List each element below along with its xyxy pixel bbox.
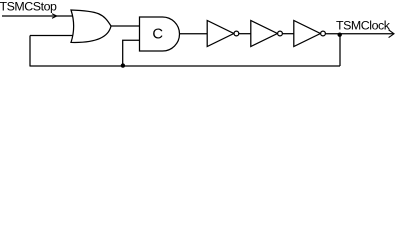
or-gate U1 [71, 10, 111, 42]
svg-text:TSMCStop: TSMCStop [0, 0, 57, 14]
junction dot below TSMClock [338, 33, 342, 37]
wire C output to inverter 1 [180, 33, 208, 35]
arrowhead on TSMCStop wire [52, 14, 57, 19]
c-element U2 [140, 17, 180, 51]
wire inverter 1 to inverter 2 [239, 33, 251, 35]
wire feedback right vertical [339, 34, 341, 66]
inverter U4 [251, 21, 283, 47]
svg-text:C: C [152, 27, 163, 43]
inverter U5 [294, 21, 326, 47]
wire inverter 2 to inverter 3 [283, 33, 295, 35]
wire TSMCStop input [2, 15, 74, 17]
arrowhead on TSMClock output [389, 30, 394, 38]
wire OR output to C input [110, 25, 140, 27]
wire feedback bottom rail [30, 65, 341, 67]
wire inverter 3 to TSMClock output [325, 33, 393, 35]
wire feedback up to C lower input (vertical) [123, 40, 140, 65]
svg-text:TSMClock: TSMClock [336, 18, 391, 32]
wire feedback to OR lower input [30, 35, 74, 37]
inverter U3 [207, 21, 239, 47]
junction dot near C element [121, 63, 125, 67]
wire feedback left vertical [29, 36, 31, 67]
